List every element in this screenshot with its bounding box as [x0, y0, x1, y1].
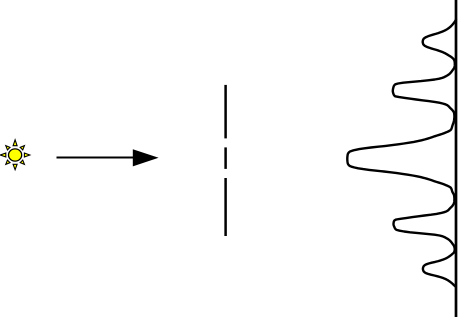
- sun ray E: [24, 153, 29, 157]
- slit barrier middle segment: [224, 147, 227, 169]
- sun ray S: [13, 164, 17, 169]
- arrow (light propagation direction): [57, 149, 159, 166]
- sun ray SW: [6, 160, 10, 164]
- screen (vertical line): [455, 0, 458, 317]
- slit barrier top segment: [224, 85, 227, 138]
- sun ray NE: [20, 146, 24, 150]
- sun light source: [0, 140, 29, 170]
- sun ray NW: [6, 146, 10, 150]
- arrow head: [133, 149, 159, 166]
- interference intensity curve: [347, 20, 456, 287]
- sun ray W: [0, 153, 5, 157]
- slit barrier bottom segment: [224, 178, 227, 236]
- sun ray SE: [20, 160, 24, 164]
- sun disc: [9, 149, 22, 161]
- sun ray N: [13, 140, 17, 146]
- arrow shaft: [57, 157, 138, 159]
